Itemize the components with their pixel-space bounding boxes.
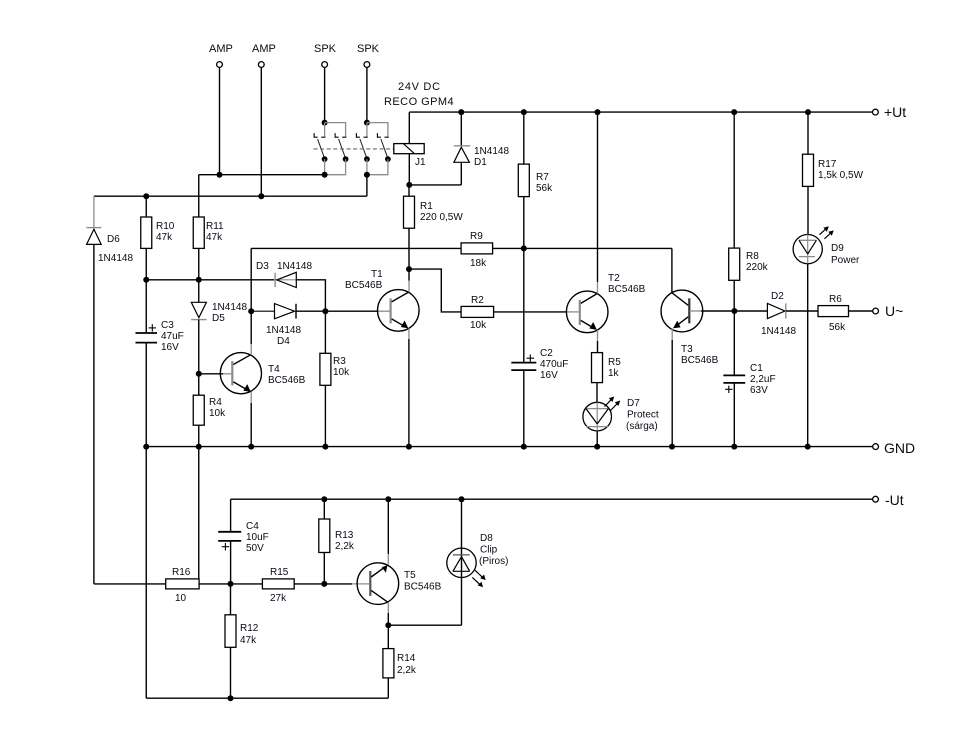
svg-text:R6: R6 xyxy=(829,294,842,305)
svg-text:T2: T2 xyxy=(608,273,620,284)
svg-text:T3: T3 xyxy=(681,344,693,355)
svg-text:R15: R15 xyxy=(270,567,289,578)
svg-text:50V: 50V xyxy=(246,543,264,554)
junction bottom rail R12 xyxy=(228,695,234,701)
svg-text:D7: D7 xyxy=(627,398,640,409)
wire R16 to R15 xyxy=(199,583,262,585)
junction T3 base node xyxy=(731,308,737,314)
junction -Ut T5 emitter xyxy=(385,496,391,502)
svg-text:C2: C2 xyxy=(540,348,553,359)
svg-text:R13: R13 xyxy=(335,530,354,541)
resistor R4 10k xyxy=(193,374,226,447)
svg-text:47k: 47k xyxy=(240,635,257,646)
svg-text:C3: C3 xyxy=(161,320,174,331)
svg-text:2,2k: 2,2k xyxy=(335,541,355,552)
resistor R16 10 xyxy=(166,567,199,604)
svg-text:24V DC: 24V DC xyxy=(398,81,441,93)
junction AMP2 row xyxy=(258,193,264,199)
junction R7 top xyxy=(521,109,527,115)
svg-text:-Ut: -Ut xyxy=(885,492,904,508)
wire D6 down to R16 row xyxy=(93,244,95,584)
wire D4 row to T1 base xyxy=(325,310,377,312)
svg-text:1N4148: 1N4148 xyxy=(212,302,247,313)
svg-text:D2: D2 xyxy=(771,291,784,302)
relay contact group 1 bottom node xyxy=(322,172,328,178)
wire R9 row left xyxy=(251,247,461,249)
junction relay coil bottom xyxy=(406,182,412,188)
svg-text:56k: 56k xyxy=(536,183,553,194)
relay contact S1a xyxy=(314,133,327,175)
wire R10-R11 row xyxy=(146,279,199,281)
diode D2 1N4148 xyxy=(734,291,818,337)
svg-text:C1: C1 xyxy=(750,363,763,374)
svg-text:27k: 27k xyxy=(270,593,287,604)
junction R8 top xyxy=(731,109,737,115)
svg-text:220k: 220k xyxy=(746,262,769,273)
junction T4 base xyxy=(196,371,202,377)
wire D1 bottom to relay xyxy=(409,184,461,186)
wire T5 to D8 xyxy=(388,624,461,626)
resistor R14 2,2k xyxy=(383,625,417,698)
svg-text:D5: D5 xyxy=(212,313,225,324)
junction D4 anode xyxy=(248,308,254,314)
svg-text:R3: R3 xyxy=(333,356,346,367)
terminal SPK 1 xyxy=(314,43,337,67)
junction C4-R12 node xyxy=(228,581,234,587)
junction GND T4 emitter xyxy=(248,444,254,450)
svg-text:63V: 63V xyxy=(750,385,768,396)
wire R15 to T5 base xyxy=(294,583,352,585)
svg-text:GND: GND xyxy=(884,440,915,456)
svg-text:SPK: SPK xyxy=(314,43,337,55)
resistor R1 220 0,5W xyxy=(404,185,464,228)
transistor T4 BC546B xyxy=(199,344,306,447)
wire R2 to T2 base xyxy=(494,311,567,313)
junction T2 collector top xyxy=(595,109,601,115)
diode D6 1N4148 xyxy=(86,196,133,264)
wire AMP2 row xyxy=(94,195,367,197)
junction R10 top xyxy=(143,193,149,199)
relay contact S2b xyxy=(367,133,391,175)
terminal U~ xyxy=(873,303,904,319)
svg-text:BC546B: BC546B xyxy=(608,284,646,295)
wire AMP1 down xyxy=(219,67,221,174)
svg-text:(Piros): (Piros) xyxy=(479,556,508,567)
svg-text:10uF: 10uF xyxy=(246,532,269,543)
transistor T1 BC546B xyxy=(345,269,419,447)
svg-text:1N4148: 1N4148 xyxy=(761,326,796,337)
diode D1 1N4148 xyxy=(454,112,510,185)
capacitor C3 47uF 16V xyxy=(136,280,184,447)
junction GND C3 xyxy=(143,444,149,450)
diode D4 1N4148 xyxy=(251,304,325,347)
svg-text:R16: R16 xyxy=(172,567,191,578)
svg-text:J1: J1 xyxy=(415,157,426,168)
junction AMP1 row xyxy=(217,172,223,178)
wire D3 row xyxy=(199,279,274,281)
svg-text:16V: 16V xyxy=(540,370,558,381)
svg-text:T5: T5 xyxy=(404,570,416,581)
svg-text:R4: R4 xyxy=(209,397,222,408)
svg-text:SPK: SPK xyxy=(357,43,380,55)
resistor R13 2,2k xyxy=(319,499,355,584)
terminal +Ut xyxy=(873,104,907,120)
svg-text:2,2uF: 2,2uF xyxy=(750,374,776,385)
wire switch group1 common to AMP1 row xyxy=(199,174,325,176)
resistor R17 1,5k 0,5W xyxy=(803,112,864,235)
junction GND C1 xyxy=(731,444,737,450)
junction GND D9 xyxy=(805,444,811,450)
junction GND R4 xyxy=(196,444,202,450)
svg-text:47k: 47k xyxy=(206,232,223,243)
resistor R9 18k xyxy=(461,231,493,269)
junction D1 top xyxy=(458,109,464,115)
svg-text:D3: D3 xyxy=(256,261,269,272)
relay J1 coil xyxy=(394,112,426,185)
svg-text:18k: 18k xyxy=(470,258,487,269)
junction GND T1 emitter xyxy=(406,444,412,450)
svg-text:1,5k 0,5W: 1,5k 0,5W xyxy=(818,170,864,181)
wire SPK2 down xyxy=(366,67,368,122)
transistor T3 BC546B xyxy=(661,290,734,447)
wire GND to bottom rail left xyxy=(145,447,147,699)
wire T2 collector to +Ut xyxy=(597,112,599,282)
junction -Ut D8 xyxy=(459,496,465,502)
svg-text:BC546B: BC546B xyxy=(404,582,442,593)
svg-text:47k: 47k xyxy=(156,232,173,243)
svg-text:(sárga): (sárga) xyxy=(626,421,658,432)
resistor R5 1k xyxy=(592,353,622,403)
svg-text:R9: R9 xyxy=(470,231,483,242)
svg-text:R10: R10 xyxy=(156,221,175,232)
svg-text:D8: D8 xyxy=(480,533,493,544)
wire D3 to R3 corner xyxy=(296,280,325,311)
resistor R11 47k xyxy=(193,175,224,280)
resistor R8 220k xyxy=(729,112,769,311)
svg-text:D4: D4 xyxy=(277,336,290,347)
relay contact group 2 bottom node xyxy=(364,172,370,178)
junction T5 collector node xyxy=(385,622,391,628)
resistor R10 47k xyxy=(141,196,175,280)
junction R17 top xyxy=(805,109,811,115)
svg-text:47uF: 47uF xyxy=(161,331,184,342)
LED D7 Protect (sárga) xyxy=(583,397,659,447)
svg-text:D1: D1 xyxy=(474,157,487,168)
svg-text:1N4148: 1N4148 xyxy=(98,253,133,264)
relay contact group 1 top node xyxy=(322,120,346,137)
relay actuator dashed link xyxy=(314,148,394,150)
svg-text:R5: R5 xyxy=(608,357,621,368)
wire AMP2 down xyxy=(260,67,262,196)
terminal GND xyxy=(873,440,915,456)
junction GND R3 xyxy=(322,444,328,450)
resistor R12 47k xyxy=(225,584,259,698)
svg-text:BC546B: BC546B xyxy=(681,355,719,366)
wire R1 to T1 collector xyxy=(408,228,410,280)
svg-text:C4: C4 xyxy=(246,521,259,532)
wire SPK1 down xyxy=(324,67,326,122)
svg-text:10: 10 xyxy=(175,593,187,604)
junction GND D7 xyxy=(594,444,600,450)
wire R9 row right xyxy=(493,247,672,249)
GND rail wire xyxy=(146,446,872,448)
svg-text:R17: R17 xyxy=(818,159,837,170)
svg-text:R8: R8 xyxy=(746,251,759,262)
svg-text:RECO GPM4: RECO GPM4 xyxy=(384,96,454,108)
LED D9 Power xyxy=(793,226,860,446)
svg-text:Protect: Protect xyxy=(627,410,659,421)
resistor R2 10k xyxy=(461,295,494,331)
resistor R7 56k xyxy=(518,112,553,248)
junction -Ut R13 xyxy=(321,496,327,502)
capacitor C2 470uF 16V xyxy=(511,248,568,446)
svg-text:T4: T4 xyxy=(268,364,280,375)
svg-text:U~: U~ xyxy=(885,303,903,319)
capacitor C1 2,2uF 63V xyxy=(723,311,775,447)
relay contact S1b xyxy=(325,133,349,175)
svg-text:10k: 10k xyxy=(470,320,487,331)
svg-text:R12: R12 xyxy=(240,623,259,634)
svg-text:Clip: Clip xyxy=(480,545,498,556)
LED D8 Clip (Piros) xyxy=(447,499,509,625)
relay contact group 2 top node xyxy=(364,120,388,137)
junction GND C2 xyxy=(521,444,527,450)
junction GND T3 emitter xyxy=(669,444,675,450)
terminal AMP 1 xyxy=(209,43,233,67)
svg-text:1N4148: 1N4148 xyxy=(277,261,312,272)
svg-text:R11: R11 xyxy=(206,221,224,232)
svg-text:T1: T1 xyxy=(371,269,383,280)
svg-text:470uF: 470uF xyxy=(540,359,568,370)
terminal SPK 2 xyxy=(357,43,380,67)
svg-text:Power: Power xyxy=(831,255,860,266)
diode D5 1N4148 xyxy=(191,280,247,374)
svg-text:10k: 10k xyxy=(209,408,226,419)
svg-text:R7: R7 xyxy=(536,172,549,183)
svg-text:BC546B: BC546B xyxy=(268,375,306,386)
svg-text:D9: D9 xyxy=(831,243,844,254)
junction R7-C2 node xyxy=(521,245,527,251)
svg-text:AMP: AMP xyxy=(252,43,276,55)
wire T3 collector drop xyxy=(671,248,673,292)
wire T4 collector / R9 drop xyxy=(250,248,252,344)
svg-text:1N4148: 1N4148 xyxy=(266,325,301,336)
wire GND to R16 right xyxy=(198,447,200,580)
svg-text:220 0,5W: 220 0,5W xyxy=(420,212,463,223)
junction R13 bottom xyxy=(321,581,327,587)
svg-text:16V: 16V xyxy=(161,342,179,353)
wire T2 emitter to R5 xyxy=(597,341,599,353)
svg-text:1k: 1k xyxy=(608,368,620,379)
svg-text:R1: R1 xyxy=(420,201,433,212)
label 24V DC RECO GPM4 xyxy=(384,81,454,108)
svg-text:AMP: AMP xyxy=(209,43,233,55)
svg-text:10k: 10k xyxy=(333,367,350,378)
svg-text:R2: R2 xyxy=(471,295,484,306)
terminal AMP 2 xyxy=(252,43,276,67)
-Ut rail wire xyxy=(231,498,873,500)
transistor T2 BC546B xyxy=(566,273,645,341)
junction T1 collector branch xyxy=(406,266,412,272)
junction D5 top xyxy=(196,277,202,283)
junction R3 top xyxy=(322,308,328,314)
wire R16 row left xyxy=(94,583,166,585)
svg-text:R14: R14 xyxy=(397,653,416,664)
resistor R15 27k xyxy=(262,567,294,604)
capacitor C4 10uF 50V xyxy=(218,499,269,584)
svg-text:2,2k: 2,2k xyxy=(397,665,417,676)
svg-text:BC546B: BC546B xyxy=(345,280,383,291)
svg-text:+Ut: +Ut xyxy=(884,104,906,120)
junction C3 top xyxy=(143,277,149,283)
svg-text:D6: D6 xyxy=(107,234,120,245)
wire T1 collector to R2 xyxy=(409,269,461,312)
+Ut rail wire xyxy=(409,111,872,113)
relay contact S2a xyxy=(356,133,369,175)
transistor T5 BC546B xyxy=(357,499,441,625)
terminal -Ut xyxy=(873,492,904,508)
svg-text:1N4148: 1N4148 xyxy=(474,146,509,157)
wire switch group2 common down xyxy=(366,175,368,197)
bottom rail wire xyxy=(146,697,388,699)
resistor R6 56k xyxy=(818,294,873,333)
svg-text:56k: 56k xyxy=(829,322,846,333)
diode D3 1N4148 xyxy=(256,261,312,288)
resistor R3 10k xyxy=(320,311,350,446)
